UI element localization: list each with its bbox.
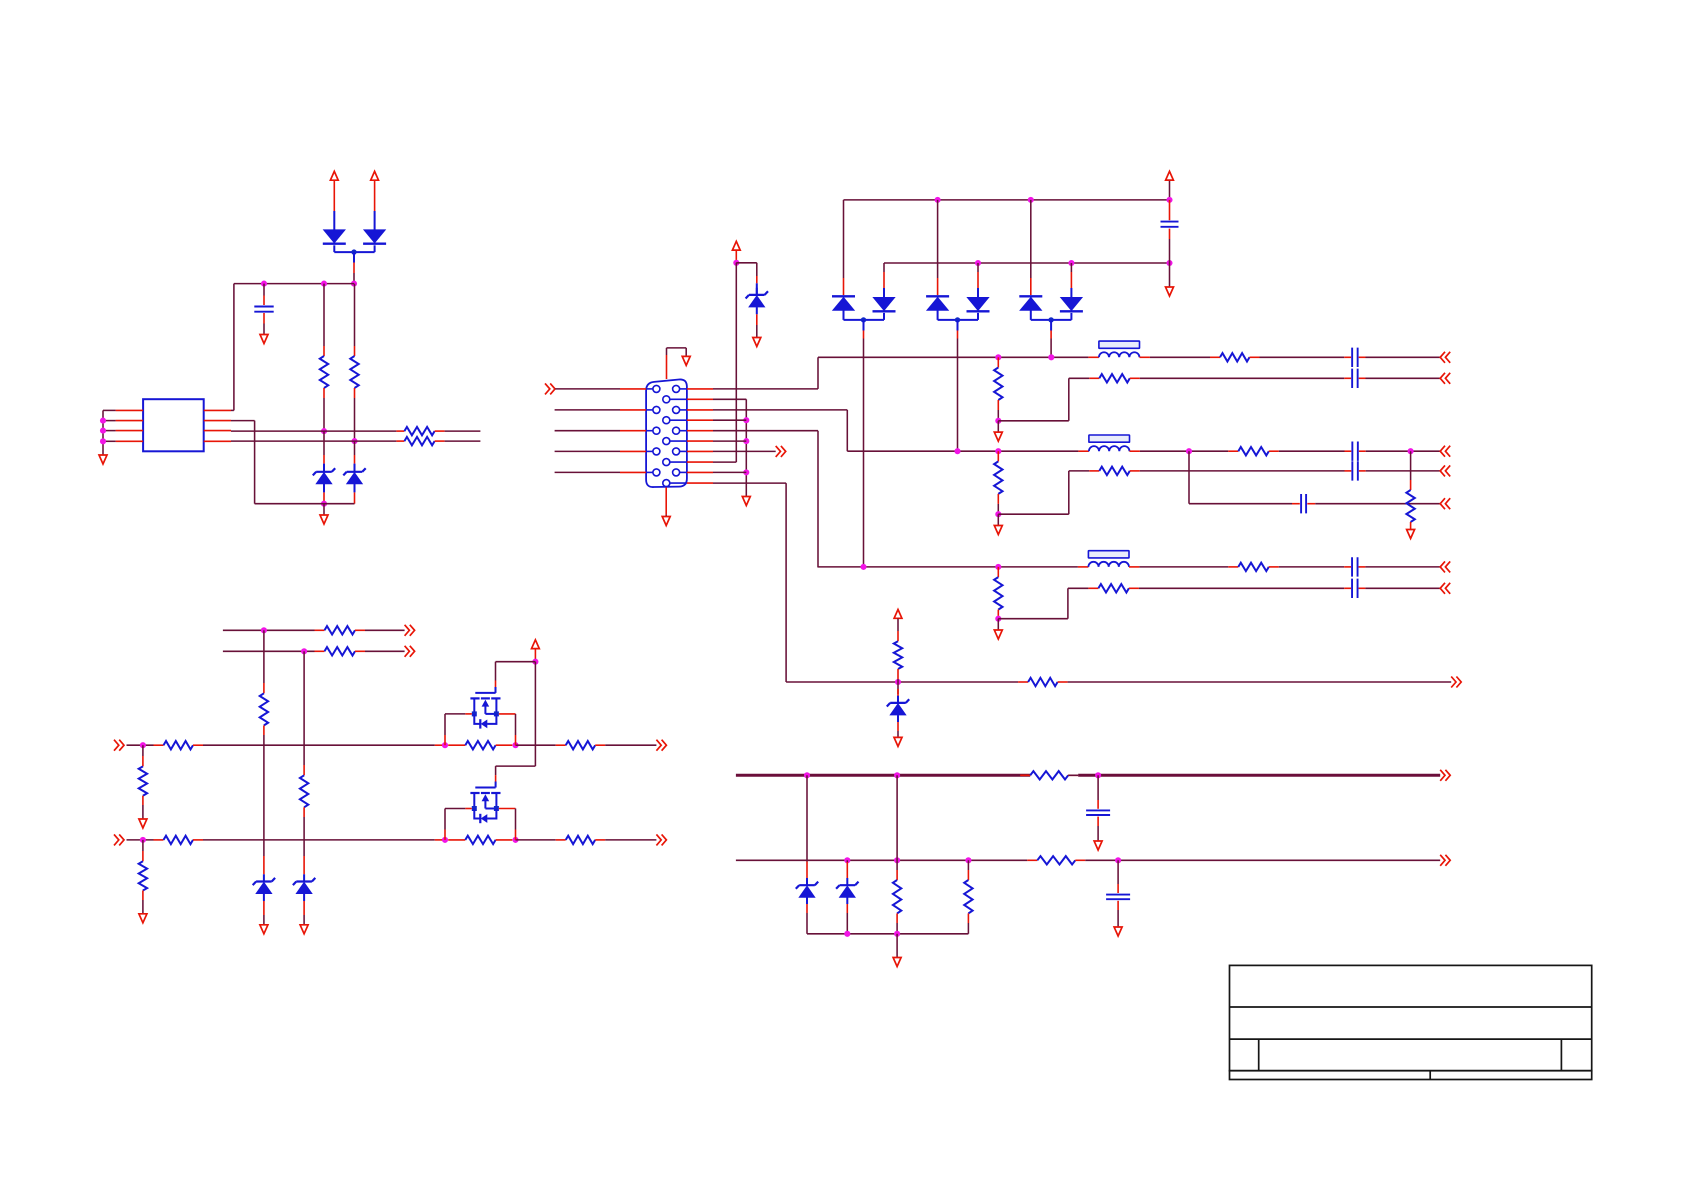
wire: [1140, 470, 1345, 472]
wire: [896, 923, 898, 934]
pin: [843, 278, 845, 295]
junction: [995, 616, 1001, 622]
wire: [807, 933, 968, 935]
wire: [263, 324, 265, 335]
pin: [323, 346, 325, 356]
wire rail: [736, 774, 1030, 777]
resistor: [893, 880, 901, 913]
wire: [445, 713, 465, 715]
wire: [896, 775, 898, 860]
wire: [333, 245, 335, 252]
wire: [756, 325, 758, 337]
wire: [1169, 181, 1171, 200]
wire: [555, 409, 620, 411]
pin: [1344, 587, 1351, 589]
wire: [254, 421, 256, 504]
wire: [685, 348, 687, 356]
pin: [620, 430, 646, 432]
wire: [736, 262, 757, 264]
wire: [1050, 339, 1052, 358]
pin: [687, 419, 713, 421]
zener diode Z2: [354, 465, 356, 472]
wire: [1150, 356, 1210, 358]
resistor: [260, 693, 268, 725]
ground: [994, 432, 1002, 441]
wire: [817, 357, 819, 389]
wire: [896, 934, 898, 957]
wire: [897, 715, 899, 722]
diode D14 (up): [1019, 295, 1042, 297]
wire: [103, 420, 116, 422]
wire: [1366, 470, 1441, 472]
pin: [353, 263, 355, 274]
wire: [997, 410, 999, 421]
wire: [713, 471, 746, 473]
pin: [396, 430, 404, 432]
off-page connector: [545, 383, 555, 394]
junction: [894, 857, 900, 863]
wire: [495, 687, 497, 693]
pin: [863, 331, 865, 339]
wire: [534, 662, 536, 766]
zener diode: [303, 874, 305, 881]
wire: [353, 273, 355, 284]
wire: [354, 398, 356, 441]
pin: [897, 631, 899, 641]
pin: [1027, 859, 1037, 861]
pin: [595, 839, 605, 841]
wire: [354, 464, 356, 473]
wire: [756, 263, 758, 276]
junction: [1095, 772, 1101, 778]
pin: [1140, 356, 1150, 358]
pin: [323, 455, 325, 464]
resistor: [465, 836, 495, 844]
pin: [620, 471, 646, 473]
wire: [495, 782, 497, 788]
junction: [861, 317, 866, 322]
pin: [1050, 331, 1052, 339]
wire: [785, 483, 787, 682]
wire: [665, 515, 667, 517]
pin: [687, 450, 713, 452]
wire: [353, 252, 355, 262]
pin: [204, 409, 231, 411]
wire: [354, 284, 356, 346]
wire: [998, 420, 1069, 422]
pin: [142, 796, 144, 805]
ground: [260, 335, 268, 344]
pin: [687, 440, 713, 442]
resistor R1: [320, 356, 328, 388]
resistor: [1037, 856, 1075, 864]
wire: [713, 482, 786, 484]
junction: [442, 742, 448, 748]
wire: [977, 263, 979, 272]
wire: [1068, 774, 1078, 776]
pin: [1097, 800, 1099, 809]
wire: [142, 840, 144, 851]
pin: [263, 901, 265, 915]
resistor: [1406, 490, 1414, 522]
wire: [142, 745, 144, 756]
pin: [1068, 774, 1078, 776]
wire: [127, 744, 154, 746]
capacitor: [1301, 494, 1306, 513]
wire: [1070, 288, 1072, 298]
wire: [263, 745, 265, 856]
resistor: [566, 741, 596, 749]
junction: [995, 418, 1001, 424]
pin: [1307, 503, 1315, 505]
pin: [154, 744, 164, 746]
pin: [154, 839, 164, 841]
pin: [204, 420, 231, 422]
power flag VCC: [330, 171, 338, 180]
wire: [756, 307, 758, 314]
pin: [687, 430, 713, 432]
wire: [534, 659, 536, 662]
resistor: [164, 741, 194, 749]
pin: [1210, 356, 1220, 358]
pin: [1269, 566, 1279, 568]
junction: [532, 659, 538, 665]
pin: [1344, 356, 1351, 358]
resistor: [1238, 447, 1269, 455]
junction: [1048, 317, 1053, 322]
pin: [897, 722, 899, 731]
pin: [846, 904, 848, 913]
wire: [445, 430, 481, 432]
pin: [1018, 681, 1028, 683]
ground: [994, 526, 1002, 535]
wire: [938, 319, 978, 321]
wire: [735, 263, 737, 462]
wire: [977, 288, 979, 298]
ferrite bead FB: [1099, 341, 1140, 348]
pin: [315, 629, 325, 631]
pin: [495, 775, 497, 781]
ground: [893, 958, 901, 967]
pin: [1359, 356, 1366, 358]
pin: [444, 735, 446, 745]
wire: [323, 431, 325, 455]
junction: [1115, 857, 1121, 863]
pin: [1345, 450, 1352, 452]
wire: [997, 618, 999, 621]
pin: [142, 756, 144, 766]
wire: [515, 714, 517, 735]
wire: [977, 313, 979, 320]
pin: [303, 901, 305, 915]
wire: [1068, 378, 1070, 421]
junction: [140, 742, 146, 748]
ground: [682, 356, 690, 365]
pin: [666, 355, 668, 379]
resistor: [1238, 563, 1269, 571]
wire: [142, 900, 144, 914]
pin: [967, 913, 969, 923]
pin: [355, 629, 365, 631]
pin: [756, 314, 758, 325]
wire: [883, 263, 885, 272]
resistor: [994, 368, 1002, 401]
ground: [139, 819, 147, 828]
wire: [1410, 451, 1412, 480]
pin: [355, 650, 365, 652]
pin: [595, 744, 605, 746]
junction: [844, 931, 850, 937]
junction: [995, 511, 1001, 517]
pin: [465, 808, 472, 810]
off-page connector: [1440, 465, 1450, 476]
off-page connector: [1451, 677, 1461, 688]
pin: [687, 471, 713, 473]
wire: [234, 283, 354, 285]
power flag VCC: [371, 171, 379, 180]
wire: [846, 897, 848, 904]
pin: [897, 689, 899, 696]
wire: [127, 839, 154, 841]
diode D12 (up): [926, 295, 949, 297]
wire: [957, 320, 959, 331]
pin: [1359, 450, 1366, 452]
pin: [687, 398, 713, 400]
pin: [193, 839, 203, 841]
diode D13 (down): [967, 298, 988, 311]
wire: [1067, 588, 1069, 618]
wire: [365, 650, 405, 652]
pin: [806, 904, 808, 913]
wire: [445, 808, 465, 810]
wire: [323, 284, 325, 346]
junction: [100, 438, 106, 444]
wire: [997, 619, 999, 630]
pin: [967, 870, 969, 880]
pin: [1359, 587, 1366, 589]
pin: [1089, 377, 1099, 379]
wire: [1069, 470, 1090, 472]
resistor R4: [404, 437, 434, 445]
wire: [1117, 910, 1119, 927]
wire: [937, 200, 939, 278]
pin: [997, 451, 999, 461]
pin: [1129, 566, 1139, 568]
pin: [1129, 587, 1139, 589]
wire: [897, 682, 899, 694]
zener diode: [846, 878, 848, 885]
wire: [1279, 450, 1345, 452]
wire: [203, 839, 435, 841]
wire: [896, 860, 898, 870]
pin: [957, 331, 959, 339]
wire: [516, 744, 556, 746]
pin: [977, 272, 979, 288]
junction: [351, 281, 357, 287]
wire: [897, 731, 899, 737]
pin: [354, 492, 356, 503]
wire: [263, 735, 265, 745]
wire: [323, 484, 325, 492]
wire: [1260, 356, 1345, 358]
junction: [733, 260, 739, 266]
pin: [883, 272, 885, 288]
wire: [555, 471, 620, 473]
zener diode ZD1: [756, 288, 758, 295]
diode D11 (down): [873, 298, 894, 311]
wire: [997, 504, 999, 514]
pin: [620, 388, 646, 390]
resistor: [1220, 353, 1250, 361]
wire: [713, 450, 776, 452]
junction: [100, 418, 106, 424]
wire: [303, 840, 305, 856]
VGA DB15 connector J1: [646, 379, 687, 487]
wire: [233, 284, 235, 411]
wire: [863, 339, 865, 567]
resistor: [300, 775, 308, 807]
wire: [897, 619, 899, 632]
wire: [1188, 451, 1190, 504]
resistor: [566, 836, 596, 844]
capacitor C1: [254, 307, 273, 312]
resistor: [1098, 584, 1129, 592]
junction: [321, 281, 327, 287]
wire: [713, 440, 746, 442]
pin: [1130, 470, 1140, 472]
wire: [713, 461, 736, 463]
junction: [512, 837, 518, 843]
wire: [555, 388, 620, 390]
pin: [354, 455, 356, 464]
ground: [99, 455, 107, 464]
wire: [843, 200, 845, 278]
junction: [512, 742, 518, 748]
pin: [435, 440, 445, 442]
wire: [374, 211, 376, 230]
wire: [1097, 826, 1099, 841]
pin: [496, 839, 513, 841]
wire: [255, 503, 355, 505]
pin: [1117, 884, 1119, 893]
pin: [315, 650, 325, 652]
junction: [1166, 197, 1172, 203]
pin: [323, 388, 325, 398]
pin: [937, 278, 939, 295]
wire: [323, 504, 325, 515]
capacitor: [1352, 369, 1358, 388]
wire: [846, 913, 848, 934]
wire: [1366, 377, 1441, 379]
wire: [303, 817, 305, 840]
junction: [955, 317, 960, 322]
pin: [997, 567, 999, 577]
resistor: [325, 647, 356, 655]
junction: [100, 428, 106, 434]
pin: [1269, 450, 1279, 452]
pin: [687, 461, 713, 463]
MOSFET Q2: [475, 787, 495, 789]
off-page connector: [776, 446, 786, 457]
wire: [1169, 239, 1171, 263]
wire: [374, 245, 376, 252]
pin: [896, 870, 898, 880]
pin: [263, 296, 265, 306]
zener diode: [263, 874, 265, 881]
pin: [665, 488, 667, 515]
wire: [1139, 566, 1228, 568]
junction: [351, 438, 357, 444]
pin: [735, 251, 737, 261]
pin: [1078, 450, 1089, 452]
wire: [998, 513, 1069, 515]
wire: [817, 431, 819, 567]
wire: [1140, 450, 1228, 452]
wire: [1366, 450, 1441, 452]
wire: [806, 897, 808, 904]
wire: [496, 661, 536, 663]
wire: [263, 894, 265, 902]
pin: [556, 744, 566, 746]
wire: [323, 398, 325, 431]
diode D15 (down): [1061, 298, 1082, 311]
pin: [448, 839, 465, 841]
pin: [997, 400, 999, 410]
pin: [499, 808, 516, 810]
wire: [1030, 200, 1032, 278]
junction: [351, 249, 356, 254]
pin: [435, 430, 445, 432]
wire: [231, 440, 396, 442]
capacitor: [1086, 810, 1110, 815]
wire rail: [1078, 774, 1440, 777]
pin: [1169, 229, 1171, 239]
wire: [102, 410, 104, 454]
wire: [967, 923, 969, 934]
wire: [495, 766, 497, 775]
wire: [1366, 356, 1441, 358]
wire: [103, 430, 116, 432]
wire: [496, 765, 536, 767]
IC U1: [143, 399, 204, 451]
wire: [231, 420, 255, 422]
wire: [937, 311, 939, 320]
wire: [323, 464, 325, 473]
pin: [1097, 817, 1099, 826]
wire: [713, 388, 818, 390]
wire: [998, 618, 1068, 620]
junction: [1068, 260, 1074, 266]
wire: [1365, 587, 1440, 589]
wire: [263, 284, 265, 296]
resistor R2: [350, 356, 358, 388]
pin: [263, 725, 265, 735]
junction: [1048, 354, 1054, 360]
junction: [894, 931, 900, 937]
resistor: [894, 641, 902, 669]
pin: [620, 450, 646, 452]
off-page connector: [1440, 373, 1450, 384]
wire: [844, 319, 885, 321]
wire: [786, 681, 1018, 683]
pin: [1088, 356, 1099, 358]
capacitor: [1352, 579, 1358, 598]
power flag: [894, 610, 902, 619]
ground: [662, 517, 670, 526]
resistor: [139, 766, 147, 795]
pin: [515, 735, 517, 745]
zener diode: [806, 878, 808, 885]
